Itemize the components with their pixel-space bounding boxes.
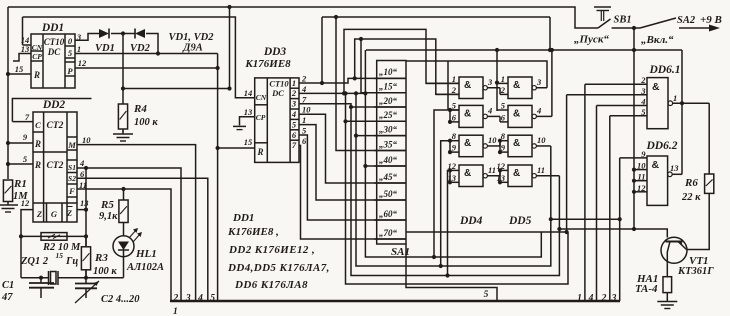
node base net — [632, 227, 636, 231]
node c30 tap — [354, 134, 358, 138]
switch SA1 frame — [377, 61, 406, 245]
node w1 DD4.2 feed — [432, 255, 436, 259]
resistor R5 — [119, 200, 128, 223]
push button SB1 — [598, 19, 611, 28]
svg-text:SB1: SB1 — [614, 15, 632, 26]
svg-text:&: & — [513, 80, 520, 91]
transistor VT1 (KT361G) — [661, 237, 687, 263]
node c10 riser junction — [353, 76, 357, 80]
svg-text:„30“: „30“ — [379, 124, 398, 134]
svg-text:3: 3 — [536, 77, 542, 87]
wire riser to contact 25 and wrap w4 — [346, 93, 569, 284]
node Z branch — [84, 208, 88, 212]
node rail-DD2.5 — [6, 162, 10, 166]
svg-text:CN: CN — [32, 43, 43, 52]
node x550 y50 — [548, 48, 552, 52]
wire DD3 out3 to contact 20 and wrap w3 — [299, 104, 559, 276]
wire DD2 Z output down — [77, 210, 86, 247]
svg-text:11: 11 — [537, 165, 545, 175]
wire DD2 F output — [77, 189, 171, 301]
svg-text:&: & — [464, 138, 471, 149]
quartz ZQ1 — [48, 271, 50, 285]
wire start net riser from SB1 node — [633, 28, 635, 170]
svg-text:M: M — [67, 140, 76, 150]
svg-text:DD4: DD4 — [459, 215, 483, 227]
wire DD4.2 out jog to DD5 — [499, 116, 501, 122]
svg-text:CN: CN — [256, 93, 267, 102]
NAND gate DD5.4 — [508, 165, 532, 187]
ground at DD3 CP — [233, 125, 246, 127]
resistor R4 — [118, 104, 127, 129]
wire DD6.1 out to R6 — [708, 103, 710, 174]
svg-text:G: G — [51, 209, 58, 219]
svg-text:2: 2 — [173, 294, 179, 304]
svg-text:3: 3 — [185, 294, 191, 304]
capacitor C2 (trimmer) — [85, 270, 87, 284]
wire ZQ1 left — [21, 277, 49, 279]
svg-text:DD1: DD1 — [41, 22, 64, 34]
counter DD3 (K176IE8) — [255, 78, 299, 162]
wire DD5 out4 riser — [551, 50, 553, 116]
node DD5 pin1 — [495, 81, 499, 85]
svg-text:12: 12 — [78, 58, 87, 68]
svg-text:&: & — [652, 81, 660, 93]
wire DD1 pin14 riser — [22, 17, 24, 45]
wire DD6.1 pin4 riser — [596, 106, 598, 302]
wire DD6.2 pin9 riser — [619, 158, 621, 301]
wire contact 15 riser — [361, 39, 406, 93]
svg-text:СТ10: СТ10 — [269, 79, 289, 89]
wire feedback line y17 right segment — [322, 16, 550, 18]
svg-text:22 к: 22 к — [681, 192, 701, 203]
svg-text:ТА-4: ТА-4 — [635, 283, 658, 295]
wire R5 to HL1 — [123, 223, 125, 236]
counter DD1 (K176IE8) — [31, 34, 75, 88]
svg-text:4: 4 — [588, 294, 594, 304]
svg-text:4: 4 — [197, 294, 203, 304]
svg-text:1: 1 — [673, 93, 677, 103]
svg-text:DD6.2: DD6.2 — [646, 140, 678, 152]
wire VD1 cathode to node — [111, 33, 135, 35]
node VD junction to DD3 feed — [121, 86, 125, 90]
svg-text:&: & — [652, 159, 660, 171]
wire ZQ1 right — [58, 277, 124, 279]
svg-text:Гц: Гц — [65, 256, 78, 267]
node common tap pin3 — [565, 230, 569, 234]
wire w1 riser to DD4.2 — [434, 110, 459, 257]
wire VD node line to rail riser — [123, 88, 230, 90]
wire HL1 cathode — [123, 257, 125, 278]
svg-text:2: 2 — [291, 88, 297, 98]
svg-text:10: 10 — [302, 105, 311, 115]
wire DD2 S2 output — [77, 178, 208, 301]
node L1 on out2 — [342, 91, 346, 95]
node out2 end — [363, 91, 367, 95]
svg-text:3: 3 — [291, 99, 297, 109]
NAND gate DD5.2 — [508, 105, 532, 127]
svg-text:DC: DC — [271, 88, 284, 98]
wire harness line L1 to DD4.1 pin1 — [344, 29, 459, 93]
wire DD4.4 input tie — [449, 170, 451, 182]
node out2 mid — [354, 91, 358, 95]
svg-text:CT10: CT10 — [44, 37, 65, 47]
node rail-DD2.9 — [6, 141, 10, 145]
switch SA1 contact 1 — [374, 92, 406, 94]
svg-text:С2 4...20: С2 4...20 — [101, 294, 140, 305]
svg-text:R: R — [34, 139, 41, 149]
wire w2 riser to DD4.3 — [441, 141, 450, 266]
switch SA1 contact 6 — [374, 165, 406, 167]
svg-text:C: C — [35, 120, 41, 130]
node R3 bottom junction — [84, 276, 88, 280]
svg-text:АЛ102А: АЛ102А — [126, 262, 164, 273]
wire SA1 common to cable — [406, 244, 497, 301]
node w3 DD4.4 feed — [445, 273, 449, 277]
wire R2 net — [21, 235, 86, 237]
node w2 DD4.3 feed — [439, 264, 443, 268]
svg-text:13: 13 — [244, 107, 253, 117]
svg-text:P: P — [67, 66, 73, 76]
svg-text:„15“: „15“ — [379, 82, 398, 92]
NAND gate DD6.2 — [647, 156, 668, 205]
wire DD6.1 pin5 riser — [609, 116, 611, 301]
svg-text:„35“: „35“ — [379, 139, 398, 149]
wire DD6.1 pin3 riser — [566, 95, 568, 232]
wire DD5.3 input tie — [499, 141, 501, 152]
wire HA1 to ground — [666, 293, 668, 300]
wire R5 riser — [123, 189, 125, 200]
diode VD2 — [134, 29, 136, 39]
svg-text:4: 4 — [79, 158, 84, 168]
wire R6 to VT1 emitter — [687, 193, 709, 249]
switch SA1 contact 10 — [374, 238, 406, 240]
node DD6.1 out — [680, 101, 684, 105]
wire VT1 collector — [666, 263, 668, 277]
svg-text:DD1: DD1 — [232, 212, 254, 224]
wire VD2 anode — [146, 34, 158, 54]
svg-text:13: 13 — [80, 198, 89, 208]
svg-text:„Вкл.“: „Вкл.“ — [641, 34, 674, 46]
wire harness line L2 to DD4.1 pin2 — [355, 39, 459, 94]
diode VD1 — [99, 29, 109, 38]
svg-text:3: 3 — [487, 77, 493, 87]
wire DD3 out7 to contact 70 — [299, 145, 406, 239]
svg-text:S2: S2 — [68, 174, 76, 183]
wire +9V top rail — [8, 7, 598, 28]
svg-text:11: 11 — [488, 165, 496, 175]
svg-text:К176ИЕ8 ,: К176ИЕ8 , — [227, 226, 279, 238]
node out10 w2 — [549, 217, 553, 221]
wire DD4.3 input tie — [449, 141, 451, 152]
svg-text:ZQ1 2: ZQ1 2 — [20, 256, 49, 267]
svg-text:„10“: „10“ — [379, 67, 398, 77]
svg-text:„45“: „45“ — [379, 172, 398, 182]
wire DD3 out1 to contact 10 — [299, 78, 406, 83]
NAND gate DD4.2 — [459, 105, 483, 127]
wire L4 drop to DD4.2 pin5 — [447, 61, 449, 110]
svg-text:&: & — [513, 168, 520, 179]
svg-text:CT2: CT2 — [47, 121, 64, 131]
node SB1-SA2 — [632, 26, 636, 30]
node VD line end — [227, 86, 231, 90]
switch SA1 contact 5 — [374, 150, 406, 152]
svg-text:„Пуск“: „Пуск“ — [574, 34, 609, 46]
svg-text:9,1к: 9,1к — [99, 211, 118, 222]
resistor R3 link — [85, 236, 87, 246]
NAND gate DD6.1 — [647, 78, 668, 129]
svg-text:Д9А: Д9А — [182, 43, 202, 54]
wire clock line y17 to DD3 CN — [23, 17, 255, 98]
wire SA1 common tap to DD6.1 pin3 — [406, 231, 568, 233]
svg-text:R5: R5 — [100, 199, 114, 211]
svg-text:DD4,DD5 К176ЛА7,: DD4,DD5 К176ЛА7, — [227, 262, 330, 274]
svg-text:VD1, VD2: VD1, VD2 — [169, 32, 215, 43]
svg-text:&: & — [464, 80, 471, 91]
svg-text:4: 4 — [536, 105, 541, 115]
node c25 tap — [343, 119, 347, 123]
svg-text:100 к: 100 к — [134, 117, 158, 128]
wire DD5 out10 to DD6.2 pin9 — [551, 146, 620, 219]
svg-text:47: 47 — [1, 292, 13, 303]
wire start net riser to DD6.2 out — [681, 50, 683, 174]
wire R3 bottom — [85, 270, 87, 278]
wire SB1 to node — [612, 27, 634, 29]
svg-text:„70“: „70“ — [379, 228, 398, 238]
svg-text:4: 4 — [291, 109, 296, 119]
switch SA1 contact 3 — [374, 120, 406, 122]
ground under HA1 — [666, 298, 668, 302]
svg-text:13: 13 — [21, 44, 30, 54]
svg-text:3: 3 — [611, 294, 617, 304]
svg-text:DD2 К176ИЕ12 ,: DD2 К176ИЕ12 , — [228, 244, 315, 256]
wire DD5 pin1 feed — [496, 50, 498, 111]
svg-text:С1: С1 — [2, 280, 14, 291]
svg-text:4: 4 — [487, 105, 492, 115]
wire DD6.2 tied inputs — [633, 170, 635, 229]
telephone HA1 — [663, 277, 672, 293]
svg-text:F: F — [68, 186, 75, 196]
svg-text:1: 1 — [501, 74, 505, 84]
node DD1.12 tap — [216, 66, 220, 70]
resistor R3 — [81, 247, 90, 270]
switch SA1 contact 0 — [374, 77, 406, 79]
wire DD4.1 out jog to DD5 — [499, 88, 501, 95]
svg-text:„40“: „40“ — [379, 155, 398, 165]
svg-text:CT2: CT2 — [47, 161, 64, 171]
node c40 tap — [363, 164, 367, 168]
NAND gate DD4.3 — [459, 135, 483, 157]
svg-text:&: & — [513, 138, 520, 149]
node out1 riser tap — [320, 81, 324, 85]
svg-text:2: 2 — [601, 294, 607, 304]
svg-text:1: 1 — [77, 44, 81, 54]
wire DD4.2 input tie — [449, 110, 451, 122]
svg-text:15: 15 — [56, 251, 64, 260]
wire DD3 out4 to contact 45 — [299, 114, 406, 183]
svg-text:R: R — [33, 70, 40, 80]
node rail-DD1.15 — [6, 72, 10, 76]
node out10 line — [618, 217, 622, 221]
svg-text:CP: CP — [32, 52, 42, 61]
node VD2-DD1.1 — [156, 51, 160, 55]
wire DD6.1 pin2 riser — [584, 84, 586, 301]
svg-text:&: & — [513, 108, 520, 119]
svg-text:VD2: VD2 — [130, 43, 151, 54]
svg-text:„50“: „50“ — [379, 189, 398, 199]
switch SA1 contact 8 — [374, 199, 406, 201]
svg-text:DD2: DD2 — [42, 99, 66, 111]
wire riser to contact 30 and wrap w2 — [356, 93, 551, 266]
svg-text:„20“: „20“ — [379, 96, 398, 106]
resistor R2 — [41, 233, 67, 241]
wire contact 40 — [365, 165, 406, 167]
svg-text:15: 15 — [244, 137, 253, 147]
svg-text:2: 2 — [451, 85, 457, 95]
node c20 tap — [349, 105, 353, 109]
wire cable bundle — [170, 300, 620, 303]
wire contact 25 — [346, 120, 407, 122]
NAND gate DD5.1 — [508, 77, 532, 99]
svg-text:R3: R3 — [94, 252, 108, 264]
svg-text:R: R — [256, 147, 263, 157]
node w4 riser on out2 — [343, 91, 347, 95]
svg-text:DD6 К176ЛА8: DD6 К176ЛА8 — [234, 279, 308, 291]
svg-text:1М: 1М — [13, 191, 28, 202]
node DD3 R tap — [216, 146, 220, 150]
svg-text:13: 13 — [670, 163, 679, 173]
ground under R4 — [122, 131, 124, 135]
node R2 left — [19, 234, 23, 238]
svg-text:15: 15 — [15, 64, 24, 74]
node start x634 — [632, 48, 636, 52]
svg-text:R4: R4 — [133, 103, 147, 115]
wire +9V output with arrow — [679, 27, 714, 29]
wire start net y50 — [366, 49, 682, 51]
counter DD2 (K176IE12) — [33, 112, 77, 222]
switch SA2 — [634, 27, 640, 29]
node rail x229.5 — [227, 5, 231, 9]
switch SA1 contact 2 — [374, 106, 406, 108]
svg-text:Z: Z — [36, 209, 42, 219]
wire riser to contact 35 — [336, 17, 406, 151]
wire contact 30 — [356, 135, 406, 137]
NAND gate DD4.1 — [459, 77, 483, 99]
ground under R1 — [7, 202, 9, 206]
wire start net drop to cable — [217, 54, 219, 302]
node out11 w3 — [557, 227, 561, 231]
svg-text:14: 14 — [244, 88, 253, 98]
switch SA1 contact 9 — [374, 219, 406, 221]
node S1 branch — [84, 166, 88, 170]
svg-text:1: 1 — [302, 115, 306, 125]
svg-text:DC: DC — [47, 47, 61, 57]
wire DD2 S1 output — [77, 168, 181, 301]
resistor R6 — [705, 174, 714, 193]
svg-text:100 к: 100 к — [93, 266, 117, 277]
wire DD3 out6 to contact 60 — [299, 135, 406, 220]
svg-text:КТ361Г: КТ361Г — [677, 266, 714, 277]
svg-text:SA2: SA2 — [677, 15, 696, 26]
svg-text:&: & — [464, 168, 471, 179]
svg-text:2: 2 — [301, 74, 307, 84]
svg-text:1: 1 — [292, 78, 296, 88]
wire DD2 M output — [77, 145, 196, 301]
node C1 tap — [39, 276, 43, 280]
wire left supply rail — [7, 7, 9, 179]
node F to R5 — [121, 187, 125, 191]
svg-text:„60“: „60“ — [379, 209, 398, 219]
wire rail riser x229.5 — [229, 7, 231, 89]
wire w3 riser to DD4.4 — [448, 170, 451, 275]
wire DD5 out11 to VT1 base — [559, 176, 667, 238]
node R2 right — [84, 234, 88, 238]
svg-text:+9 В: +9 В — [700, 14, 722, 26]
wire DD3 R line — [218, 147, 255, 149]
svg-text:R6: R6 — [684, 177, 698, 189]
NAND gate DD4.4 — [459, 165, 483, 187]
NAND gate DD5.3 — [508, 135, 532, 157]
switch SA1 contact 4 — [374, 135, 406, 137]
switch SA1 contact 7 — [374, 182, 406, 184]
svg-text:К176ИЕ8: К176ИЕ8 — [244, 58, 291, 70]
wire harness line L4 top of SA1 to DD5 out3 — [406, 61, 547, 88]
wire pin1 segment to drop — [158, 53, 218, 55]
svg-text:S1: S1 — [68, 163, 76, 172]
node c35 riser on feedback line — [334, 15, 338, 19]
svg-text:5: 5 — [210, 294, 215, 304]
svg-text:DD6.1: DD6.1 — [649, 64, 681, 76]
wire R4 bottom — [122, 129, 124, 132]
wire S1 branch down — [85, 168, 87, 210]
svg-text:CP: CP — [256, 113, 266, 122]
wire out1 riser to feedback line — [321, 17, 323, 83]
svg-text:Z: Z — [66, 208, 72, 218]
wire DD2 pin7 loop — [12, 99, 91, 122]
wire contact 20 — [351, 106, 406, 108]
svg-text:4: 4 — [301, 84, 306, 94]
svg-text:&: & — [464, 108, 471, 119]
svg-text:10: 10 — [537, 135, 546, 145]
svg-text:SA1: SA1 — [391, 246, 410, 258]
svg-text:R1: R1 — [13, 178, 27, 190]
wire DD5.4 input tie — [499, 170, 501, 182]
node VD junction — [121, 31, 125, 35]
svg-text:1: 1 — [577, 294, 582, 304]
node c15 riser — [359, 37, 363, 41]
wire feedback riser x550 — [549, 17, 551, 50]
wire riser x365.4 to contact 40 and wrap w1 — [365, 50, 541, 257]
svg-text:DD3: DD3 — [263, 46, 287, 58]
svg-text:„25“: „25“ — [379, 110, 398, 120]
svg-text:5: 5 — [484, 290, 489, 300]
svg-text:R: R — [34, 160, 41, 170]
resistor R1 — [3, 180, 12, 202]
svg-text:VD1: VD1 — [95, 43, 115, 54]
wire DD3 out5 to contact 50 — [299, 125, 406, 200]
svg-text:10: 10 — [488, 135, 497, 145]
wire DD3 out2 — [299, 92, 365, 94]
svg-text:1: 1 — [452, 74, 456, 84]
svg-text:HL1: HL1 — [135, 248, 157, 260]
svg-text:10: 10 — [82, 135, 91, 145]
svg-text:1: 1 — [173, 307, 178, 316]
wire VD junction down to R4 — [122, 34, 124, 105]
svg-text:DD5: DD5 — [508, 215, 532, 227]
LED HL1 — [113, 236, 134, 257]
